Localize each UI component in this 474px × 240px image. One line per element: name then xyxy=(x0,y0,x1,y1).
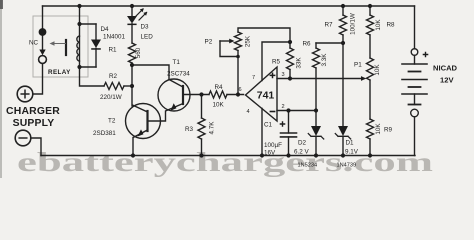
svg-text:3: 3 xyxy=(282,72,285,78)
svg-text:CHARGER: CHARGER xyxy=(6,106,60,117)
svg-text:R9: R9 xyxy=(384,127,393,134)
svg-text:100µF: 100µF xyxy=(264,142,282,149)
svg-text:R5: R5 xyxy=(272,59,281,66)
svg-text:T2: T2 xyxy=(108,118,116,125)
svg-text:R7: R7 xyxy=(325,22,334,29)
svg-text:10K: 10K xyxy=(375,123,382,135)
svg-text:100/1W: 100/1W xyxy=(350,13,357,35)
svg-text:D3: D3 xyxy=(141,24,150,31)
svg-text:R1: R1 xyxy=(109,47,118,54)
svg-text:R2: R2 xyxy=(109,73,118,80)
svg-text:R3: R3 xyxy=(185,126,194,133)
svg-text:RELAY: RELAY xyxy=(48,69,71,76)
svg-text:P2: P2 xyxy=(205,39,213,46)
svg-text:R4: R4 xyxy=(215,84,224,91)
svg-text:NC: NC xyxy=(29,40,39,47)
svg-text:12V: 12V xyxy=(440,76,454,85)
svg-text:D4: D4 xyxy=(101,26,110,33)
svg-text:LED: LED xyxy=(141,34,154,41)
svg-text:T1: T1 xyxy=(173,59,181,66)
svg-text:R8: R8 xyxy=(387,22,396,29)
svg-text:7: 7 xyxy=(252,75,255,81)
svg-text:ebatterychargers.com: ebatterychargers.com xyxy=(17,146,433,177)
svg-text:NICAD: NICAD xyxy=(433,64,458,73)
svg-text:R6: R6 xyxy=(303,41,312,48)
svg-text:25K: 25K xyxy=(245,35,252,47)
svg-text:1N4739: 1N4739 xyxy=(337,163,357,169)
svg-text:16V: 16V xyxy=(264,150,276,157)
svg-text:2SC734: 2SC734 xyxy=(167,71,190,78)
svg-text:33K: 33K xyxy=(296,57,303,69)
svg-text:6: 6 xyxy=(239,87,242,93)
svg-text:4.7K: 4.7K xyxy=(209,121,216,135)
svg-text:3.3K: 3.3K xyxy=(321,53,328,67)
svg-text:1N4001: 1N4001 xyxy=(103,34,126,41)
svg-text:2: 2 xyxy=(282,104,285,110)
svg-text:C1: C1 xyxy=(264,122,273,129)
svg-text:10K: 10K xyxy=(213,102,225,109)
svg-text:6.2 V: 6.2 V xyxy=(294,149,310,156)
svg-text:P1: P1 xyxy=(354,62,362,69)
svg-text:4: 4 xyxy=(247,109,250,115)
svg-text:10K: 10K xyxy=(375,19,382,31)
svg-text:10K: 10K xyxy=(374,64,381,76)
svg-text:2SD381: 2SD381 xyxy=(93,130,116,137)
svg-text:9.1V: 9.1V xyxy=(345,149,359,156)
svg-text:D1: D1 xyxy=(346,140,355,147)
svg-text:220/1W: 220/1W xyxy=(100,94,122,101)
svg-text:SUPPLY: SUPPLY xyxy=(13,118,55,129)
svg-text:1N5234: 1N5234 xyxy=(298,163,318,169)
svg-text:D2: D2 xyxy=(298,140,307,147)
svg-text:741: 741 xyxy=(257,90,275,102)
svg-text:560: 560 xyxy=(135,47,142,58)
